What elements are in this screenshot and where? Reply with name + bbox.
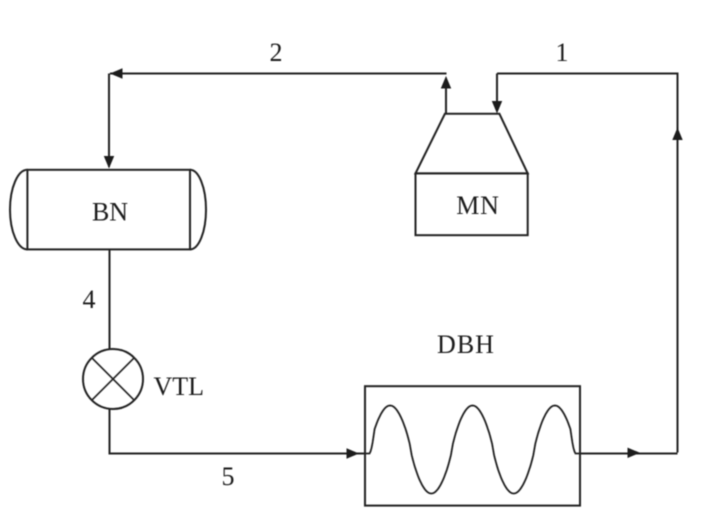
svg-text:MN: MN (456, 191, 500, 220)
svg-text:VTL: VTL (154, 372, 205, 401)
svg-text:2: 2 (270, 38, 283, 67)
svg-text:DBH: DBH (437, 330, 495, 359)
svg-text:4: 4 (83, 285, 96, 314)
svg-text:1: 1 (556, 38, 569, 67)
svg-text:BN: BN (92, 198, 128, 227)
svg-text:5: 5 (222, 462, 235, 491)
